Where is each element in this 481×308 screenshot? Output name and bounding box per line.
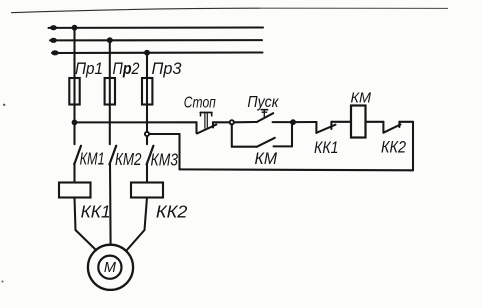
wire right vertical	[412, 122, 414, 171]
wire node to Pusk contact	[234, 121, 257, 123]
wire control rail: tap to Stop button	[75, 121, 197, 123]
svg-text:КМ2: КМ2	[115, 149, 142, 169]
node L2-V2 junction	[107, 37, 113, 43]
button Stop (normally closed pushbutton)	[184, 95, 217, 134]
svg-text:КК2: КК2	[381, 137, 406, 156]
fuse Pr1	[69, 59, 103, 105]
wire KK1 heater to motor	[75, 198, 97, 251]
contact KM self-holding branch	[232, 122, 292, 168]
wire V3 through ring continues	[146, 130, 148, 133]
node L3 terminal	[51, 50, 58, 55]
node L3-V3 junction	[144, 50, 150, 56]
node V3 return tap (ring)	[145, 132, 149, 136]
contactor main contact KM1	[74, 146, 104, 169]
contact KK1 (thermal relay, normally closed)	[314, 122, 339, 157]
node start-branch (ring)	[230, 120, 234, 124]
svg-text:КМ1: КМ1	[80, 149, 105, 169]
button Pusk (normally open pushbutton)	[247, 94, 279, 122]
wire L2	[50, 39, 262, 41]
contactor main contact KM2	[109, 146, 141, 169]
wire KK2 heater to motor	[127, 198, 148, 251]
wire Pusk to junction	[273, 121, 293, 123]
svg-text:КК1: КК1	[314, 138, 339, 157]
contactor main contact KM3	[147, 146, 179, 170]
wire V1 lower (tap to KM1 contact)	[73, 122, 75, 144]
svg-text:Пр3: Пр3	[152, 59, 183, 78]
wire junction to KK1 contact	[293, 121, 316, 123]
svg-text:Пр1: Пр1	[75, 59, 103, 78]
svg-text:КК1: КК1	[81, 202, 111, 222]
wire Stop to start node	[213, 121, 230, 123]
wire bottom rail	[180, 168, 414, 171]
wire KK1 to coil	[331, 121, 351, 123]
wire coil to KK2 contact	[366, 121, 384, 123]
wire return vertical	[178, 134, 180, 169]
wire V1 (L1 down through fuse to control tap)	[73, 28, 75, 123]
svg-text:Пуск: Пуск	[247, 94, 279, 111]
wire KK2 to right rail	[399, 121, 413, 123]
wire V2 (L2 down through fuse to KM2 contact)	[109, 40, 111, 144]
svg-text:М: М	[104, 260, 117, 276]
node L1 terminal	[50, 25, 57, 30]
node control-circuit tap	[72, 120, 78, 126]
contact KK2 (thermal relay, normally closed)	[381, 122, 406, 157]
svg-text:Стоп: Стоп	[184, 95, 216, 112]
thermal relay heater KK2	[131, 183, 188, 222]
svg-text:КМ: КМ	[255, 149, 278, 168]
coil KM (contactor coil)	[351, 90, 372, 138]
wire KM2 to motor	[109, 163, 112, 245]
wire L1	[49, 26, 264, 28]
node L1-V1 junction	[72, 25, 78, 31]
wire return horizontal to V3	[149, 133, 180, 135]
wire KM1 to KK1 heater	[73, 163, 75, 182]
svg-text:КМ3: КМ3	[151, 150, 179, 170]
fuse Pr3	[142, 59, 182, 105]
node self-hold junction	[290, 119, 296, 125]
fuse Pr2	[105, 59, 140, 105]
wire L3	[52, 51, 263, 54]
wire KM3 to KK2 heater	[146, 163, 148, 182]
wire V3 (L3 down through fuse to KM3 contact)	[146, 53, 148, 145]
svg-text:Пр2: Пр2	[113, 59, 140, 78]
svg-text:КК2: КК2	[156, 202, 188, 222]
thermal relay heater KK1	[59, 183, 111, 222]
svg-text:КМ: КМ	[351, 90, 372, 107]
node L2 terminal	[50, 38, 57, 43]
motor M1	[88, 245, 133, 290]
